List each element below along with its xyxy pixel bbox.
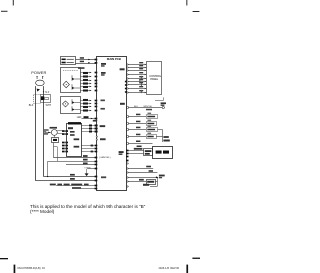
chassis ground: [86, 169, 88, 173]
svg-text:(GRN/YEL): (GRN/YEL): [99, 157, 110, 159]
svg-text:WHT: WHT: [46, 104, 52, 107]
PCB left edge pin circle a: [96, 136, 98, 138]
wire power WHT right: [43, 86, 45, 177]
PCB label FB: [119, 151, 124, 153]
PCB right edge motor pins: [126, 150, 129, 152]
wire capacitor to bus: [53, 143, 55, 158]
crop mark top-left horizontal: [1, 10, 8, 13]
trans connector pair row1: [82, 125, 97, 127]
connector 2P label: [93, 120, 97, 122]
PCB label CN2: [120, 103, 125, 105]
cooling fan label C.FAN: [163, 136, 168, 138]
main PCB box: [97, 57, 127, 191]
wire ctrl 3: [128, 70, 144, 72]
PCB connector CN3 pins: [125, 81, 127, 83]
wire drive motor pair: [128, 150, 143, 152]
drive motor box: [153, 147, 173, 159]
wires fan motor to connector: [57, 130, 62, 132]
PCB internal label F1: [101, 176, 106, 178]
bus wire 2 grey: [48, 161, 97, 163]
fan motor label: [50, 127, 57, 129]
plug prong left: [36, 76, 38, 79]
wire lower G BLU: [128, 168, 153, 170]
relay board box 1: [61, 68, 81, 93]
svg-text:DM-CH05FB-R(A,B) 19: DM-CH05FB-R(A,B) 19: [18, 266, 46, 270]
earth terminal ring: [162, 106, 164, 108]
thermostat row GRY: [128, 129, 146, 131]
ctrl wire vertical label a: [141, 76, 142, 79]
HV trans PCB box: [67, 124, 82, 157]
crop mark bottom-left horizontal: [0, 258, 8, 259]
svg-text:BLK: BLK: [29, 104, 34, 107]
svg-text:POWER: POWER: [31, 70, 46, 75]
svg-text:N.F: N.F: [45, 91, 49, 94]
HV trans PCB label: [68, 127, 73, 129]
relay board box 2: [61, 97, 81, 114]
ctrl wire vertical label c: [141, 90, 142, 93]
HV trans internal label d: [74, 146, 80, 148]
crop mark bottom-left vertical bar: [14, 265, 16, 273]
wire ctrl 9: [128, 92, 144, 94]
wire relay1 row4 with connector: [80, 83, 83, 85]
drive motor wire label line2: [134, 148, 143, 150]
earth terminal label: [161, 102, 166, 104]
wire vertical join to cooling fan: [162, 130, 164, 142]
PCB right edge pin circle x1: [127, 163, 128, 164]
power plug body: [36, 80, 45, 86]
HV trans internal label a: [70, 131, 75, 133]
PCB internal label RY3: [101, 108, 105, 110]
wire circle to capacitor: [54, 135, 56, 137]
bus wire 7: [72, 188, 96, 190]
bus wire 6 with color labels: [56, 185, 96, 187]
wire LED row: [82, 118, 97, 120]
HV trans internal label b: [70, 134, 75, 136]
wire lower H RED: [128, 172, 157, 174]
switch S601 label: [62, 59, 66, 61]
label left of fan loop: [143, 184, 149, 186]
wire lower I with drop to exhaust fan: [128, 177, 157, 179]
door switch row RED: [128, 116, 146, 118]
wire relay2 row1 with connector: [80, 100, 83, 102]
wire relay1 row3 with connector: [80, 80, 83, 82]
svg-text:Y.GRN: Y.GRN: [84, 167, 91, 169]
svg-text:(**** Model): (**** Model): [30, 209, 55, 214]
grey feed wire: [47, 161, 49, 177]
PCB internal label RY2: [101, 100, 105, 102]
wire power BLK left: [35, 86, 37, 181]
PCB left edge pin circle b: [96, 139, 98, 141]
transistor Q3 box2: [72, 99, 80, 104]
wire relay1 row6 with connector: [80, 90, 83, 92]
bus wire 3: [66, 164, 96, 166]
PCB connector label A: [100, 125, 106, 127]
wire ctrl 7: [128, 84, 144, 86]
wire into fan motor: [45, 132, 51, 134]
PCB right edge pin circle x2: [127, 186, 128, 187]
svg-text:BLU: BLU: [134, 106, 139, 108]
fuse terminal box: [45, 98, 49, 100]
PCB label CN3: [120, 68, 125, 70]
control panel box: [147, 62, 162, 95]
drive motor connector: [144, 149, 153, 156]
connector stack A: [62, 130, 65, 132]
junction dot right power wire: [43, 91, 44, 92]
crop mark top-right vertical: [185, 0, 188, 6]
wire ctrl 1: [128, 64, 144, 66]
door switch row BLU: [128, 123, 146, 125]
transistor Q2 box1: [72, 84, 80, 90]
arrow on left power wire: [37, 89, 40, 92]
svg-text:PANEL: PANEL: [150, 78, 158, 81]
trans lower row2: [82, 148, 95, 150]
stub line above earth wire: [155, 100, 163, 102]
fan/relay diamond symbol box2: [63, 101, 69, 107]
wire relay1 row5 with connector: [80, 86, 83, 88]
trans connector pair row2: [82, 128, 97, 130]
drive motor wire label line1: [137, 146, 142, 148]
trans lower row3: [82, 151, 95, 153]
bus wire 4 from WHT: [44, 176, 96, 178]
wire row PNK: [128, 143, 152, 145]
transistor Q1 box1: [72, 75, 80, 81]
svg-text:GRN/YEL: GRN/YEL: [143, 106, 153, 108]
relay box 1 title: [78, 67, 85, 69]
fuse solid box: [41, 95, 51, 103]
wire ctrl 5: [128, 78, 144, 80]
trans lower row1: [82, 145, 95, 147]
switch S602 label: [62, 62, 66, 64]
earth wire GRN/YEL: [128, 107, 162, 109]
fan motor circle: [51, 130, 57, 136]
fan wire tiny labels: [44, 129, 49, 130]
wire switch row 2: [76, 63, 97, 65]
plug prong right: [42, 76, 44, 79]
crop mark top-left vertical: [12, 0, 15, 6]
fan/relay diamond symbol box1: [63, 81, 69, 88]
wire ctrl 4: [128, 74, 144, 76]
PCB label THV: [101, 63, 106, 65]
bus wire 1: [54, 157, 97, 159]
PCB label RLY: [101, 72, 106, 74]
earth wire sublabel: [146, 109, 152, 111]
wire relay2 row4 with connector: [80, 110, 83, 112]
wire relay2 row3 with connector: [80, 106, 83, 108]
crop mark bottom-right horizontal: [192, 258, 200, 259]
wire ctrl 6: [128, 81, 144, 83]
capacitor box: [52, 138, 59, 143]
ctrl wire vertical label b: [141, 83, 142, 86]
svg-text:MAIN PCB: MAIN PCB: [107, 57, 122, 61]
ctrl wire vertical label a2: [139, 79, 140, 82]
wire ctrl 8: [128, 88, 144, 90]
crop mark top-right horizontal: [193, 10, 200, 13]
trans connector pair row3: [82, 131, 97, 133]
wire relay1 row2 with connector: [80, 76, 83, 78]
wire switch row 1: [76, 59, 97, 61]
thermostat row BRN: [128, 136, 146, 138]
earth stub Y.GRN: [87, 168, 96, 170]
fuse F1 black body: [41, 96, 44, 100]
switch box S601/S602: [61, 57, 76, 65]
bus wire 5 from BLK: [36, 180, 96, 182]
thermal fuse row: [128, 181, 146, 183]
HV trans PCB title: [68, 122, 81, 124]
svg-text:LED: LED: [77, 117, 82, 119]
svg-text:2023-1-B REV:00: 2023-1-B REV:00: [159, 266, 180, 270]
dashed link in box 1: [63, 70, 78, 72]
noise filter dashed outline: [33, 95, 35, 103]
transistor Q4 box2: [72, 106, 80, 111]
wire relay1 row1 with connector: [80, 72, 83, 74]
exhaust fan label E.FAN: [159, 175, 165, 177]
wire ctrl 2: [128, 67, 144, 69]
wire relay2 row2 with connector: [80, 103, 83, 105]
HV trans internal label c: [74, 138, 80, 140]
connector stack B: [62, 142, 65, 144]
PCB connector label B: [100, 138, 106, 140]
crop mark bottom-right vertical bar: [186, 265, 188, 273]
